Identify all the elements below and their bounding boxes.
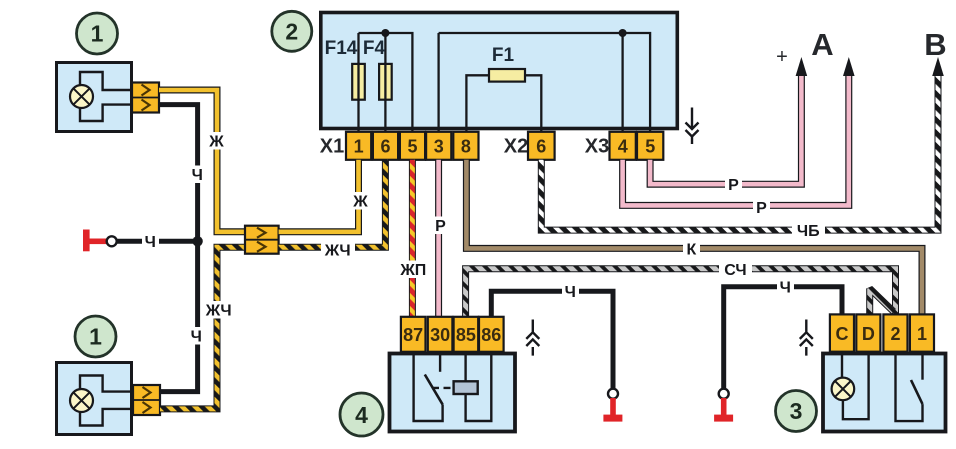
fuse F14: [352, 64, 365, 100]
fog lamp 2 (bottom) housing: [57, 363, 132, 435]
ground symbol near relay (pointing up): [526, 320, 539, 356]
svg-text:СЧ: СЧ: [724, 262, 746, 279]
svg-text:F1: F1: [492, 45, 515, 66]
wire СЧ from relay pin 85 to switch pin 2: [466, 269, 896, 317]
svg-text:30: 30: [430, 325, 450, 345]
relay ground lug (red): [603, 398, 622, 422]
wire label Ч (lamp 2 ground): [188, 327, 205, 346]
svg-text:3: 3: [434, 137, 444, 157]
X1 pin 1: [346, 132, 371, 160]
svg-text:Ж: Ж: [208, 134, 224, 151]
wire label Ч (lamp 1 ground): [189, 166, 206, 185]
wire К from X1 pin 8 to switch pin 1: [466, 160, 922, 315]
wire label Ж (to X1 pin 1): [351, 192, 370, 211]
X3 pin 5: [637, 132, 663, 160]
wire label ЖЧ (vertical to lamp 2): [202, 301, 236, 320]
wire: X1 pin 8 to fuse F1 to X2 pin 6: [466, 75, 541, 132]
node B arrow: [932, 57, 944, 76]
svg-text:D: D: [862, 324, 875, 344]
connector of fog lamp 2 (bottom): [133, 385, 160, 415]
relay ground eyelet: [608, 389, 618, 399]
junction dot above F4: [381, 29, 389, 37]
wire СЧ jumper from switch pin D: [870, 289, 894, 315]
wire ЧБ from X2 pin 6 to node B: [541, 74, 938, 230]
wire Ч from relay pin 86 to ground: [491, 291, 613, 389]
svg-text:85: 85: [456, 325, 476, 345]
wire label ЧБ: [792, 222, 825, 241]
wire: fuse top bus to X1 pin 5: [359, 33, 413, 132]
fog lamp 1 (top) bulb: [70, 85, 93, 108]
X1 pin 5: [400, 132, 425, 160]
svg-text:Ж: Ж: [352, 194, 368, 211]
svg-text:А: А: [811, 27, 833, 62]
switch pin 1: [910, 314, 934, 351]
svg-text:2: 2: [890, 324, 900, 344]
wire label Ж (lamp 1 feed): [207, 132, 226, 151]
svg-text:8: 8: [461, 137, 471, 157]
svg-text:Р: Р: [756, 200, 767, 217]
svg-text:ЧБ: ЧБ: [797, 223, 820, 240]
wire label К: [683, 240, 700, 259]
svg-text:Р: Р: [728, 177, 739, 194]
relay actuation dashed link: [432, 387, 454, 389]
svg-text:5: 5: [645, 137, 655, 157]
fog lamp 1 (top) housing: [57, 63, 132, 132]
component 3 callout circle (fog lamp switch): [776, 391, 817, 432]
wire label Ч (ground lug wire): [142, 233, 159, 252]
wire label Р (X3 pin 5 to A): [725, 176, 742, 195]
inline joint connector (harness): [245, 226, 279, 254]
svg-text:Р: Р: [435, 218, 446, 235]
switch illumination lamp leads (pins C and D): [842, 354, 869, 420]
relay coil leads (pins 85 and 86): [466, 354, 492, 422]
svg-text:4: 4: [618, 137, 628, 157]
wire: X1 pin 1 to fuse F14: [357, 33, 359, 132]
wire Ж from joint connector to X1 pin 1: [279, 160, 359, 232]
wire ЖЧ from joint connector to X1 pin 6: [279, 160, 386, 248]
svg-text:6: 6: [380, 137, 390, 157]
junction dot on black ground wire: [192, 236, 202, 246]
svg-text:6: 6: [536, 137, 546, 157]
component 1 callout circle (bottom fog lamp): [75, 316, 116, 357]
wire Ж from lamp 1 to inline joint connector: [159, 90, 245, 232]
switch pin 2: [883, 314, 907, 351]
svg-text:1: 1: [354, 137, 364, 157]
switch pin C: [830, 314, 854, 351]
wire Ч from switch pin C to ground: [724, 287, 842, 389]
switch illumination lamp: [832, 378, 855, 401]
svg-text:Ч: Ч: [192, 167, 203, 184]
relay fixed contact from pin 30: [439, 354, 441, 372]
switch contact blade: [911, 380, 923, 404]
fog lamp 2 (bottom) bulb: [70, 389, 93, 412]
wire Р from X1 pin 3 to relay pin 30: [435, 160, 442, 317]
svg-text:Ч: Ч: [191, 329, 202, 346]
relay K (box 4) body: [390, 354, 516, 432]
fog lamp 2 (bottom) bulb holder wiring: [80, 376, 132, 426]
relay pin 86: [479, 317, 504, 352]
svg-text:3: 3: [790, 398, 803, 424]
ground symbol right of box 2 (pointing down): [686, 108, 699, 145]
fuse F1: [489, 69, 525, 82]
ground symbol near switch (pointing up): [800, 320, 813, 356]
wire label Р (to relay pin 30): [432, 217, 449, 236]
wire Ч from ground lug to junction: [117, 239, 198, 244]
wire label Ч (switch ground): [777, 278, 794, 297]
svg-text:X3: X3: [585, 136, 609, 158]
X2 pin 6: [528, 132, 555, 160]
svg-text:87: 87: [403, 325, 423, 345]
component 4 callout circle (fog lamp relay): [340, 393, 383, 436]
svg-text:1: 1: [89, 324, 102, 350]
fog lamp 1 (top) bulb holder wiring: [80, 72, 131, 121]
svg-text:86: 86: [481, 325, 501, 345]
wire label Р (X3 pin 4 to A): [753, 199, 770, 218]
svg-text:F4: F4: [363, 38, 386, 59]
X3 pin 4: [610, 132, 636, 160]
svg-text:ЖЧ: ЖЧ: [205, 303, 232, 320]
component 2 callout circle: [272, 11, 312, 51]
switch contact circuit (pin 2 to blade pivot): [896, 354, 923, 422]
X1 pin 8: [453, 132, 478, 160]
relay pin 85: [454, 317, 479, 352]
X1 pin 3: [426, 132, 451, 160]
svg-text:5: 5: [407, 137, 417, 157]
fog lamp switch (box 3) body: [823, 354, 946, 432]
svg-text:Ч: Ч: [145, 234, 156, 251]
svg-text:+: +: [776, 46, 788, 68]
svg-text:4: 4: [355, 402, 368, 428]
mounting block U2 (box 2): [321, 13, 678, 129]
wire ЖЧ from inline joint connector down to lamp 2: [160, 247, 245, 409]
relay contact circuit (pin 87 to blade pivot): [414, 354, 443, 422]
switch ground lug (red): [714, 398, 733, 422]
svg-text:Ч: Ч: [565, 284, 576, 301]
node A arrow 2: [843, 57, 855, 76]
svg-text:X2: X2: [504, 136, 528, 158]
svg-text:ЖП: ЖП: [399, 262, 426, 279]
wire Ч from lamp 1 down to ground junction and to lamp 2: [159, 105, 198, 392]
wire label Ч (relay ground): [562, 283, 579, 302]
connector of fog lamp 1 (top): [132, 83, 159, 113]
relay pin 30: [428, 317, 453, 352]
wire: X1 pin 3 to X3 pins 4,5 bus: [439, 33, 650, 132]
wire label ЖП: [396, 261, 431, 280]
switch fixed contact from pin 1: [921, 354, 923, 380]
switch pin D: [856, 314, 880, 351]
relay contact blade: [425, 375, 443, 405]
wire Р from X3 pin 5 to node A: [650, 74, 801, 184]
wire: X1 pin 6 to fuse F4: [384, 33, 386, 132]
switch ground eyelet: [719, 389, 729, 399]
ground lug (left) eyelet: [107, 236, 117, 246]
junction dot above X3 pin 4: [619, 29, 627, 37]
svg-text:2: 2: [285, 19, 298, 45]
ground lug (left) red terminal: [83, 230, 107, 252]
relay pin 87: [401, 317, 426, 352]
svg-text:X1: X1: [320, 136, 344, 158]
svg-text:F14: F14: [325, 38, 358, 59]
svg-text:В: В: [924, 27, 946, 62]
svg-text:1: 1: [917, 324, 927, 344]
wire ЖП from X1 pin 5 to relay pin 87: [409, 160, 416, 317]
wire label ЖЧ (to X1 pin 6): [321, 241, 355, 260]
svg-text:Ч: Ч: [780, 280, 791, 297]
svg-text:1: 1: [91, 21, 104, 47]
relay coil winding: [454, 381, 478, 394]
svg-text:C: C: [836, 324, 849, 344]
fuse F4: [379, 64, 392, 100]
component 1 callout circle (top fog lamp): [77, 13, 118, 54]
svg-text:ЖЧ: ЖЧ: [324, 243, 351, 260]
wire label СЧ: [719, 261, 752, 280]
svg-text:К: К: [687, 242, 697, 259]
X1 pin 6: [373, 132, 398, 160]
node A arrow 1: [796, 57, 808, 76]
wire Р from X3 pin 4 to node A: [623, 74, 849, 205]
